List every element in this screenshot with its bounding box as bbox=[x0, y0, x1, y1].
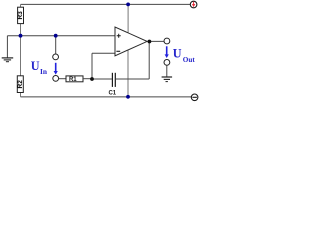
svg-text:R1: R1 bbox=[69, 77, 77, 83]
svg-text:In: In bbox=[40, 67, 47, 76]
svg-text:U: U bbox=[31, 59, 40, 73]
svg-text:C1: C1 bbox=[108, 91, 116, 97]
svg-text:U: U bbox=[173, 47, 182, 61]
svg-text:R2: R2 bbox=[17, 80, 24, 89]
svg-text:Out: Out bbox=[183, 56, 196, 64]
svg-text:R3: R3 bbox=[17, 11, 24, 20]
